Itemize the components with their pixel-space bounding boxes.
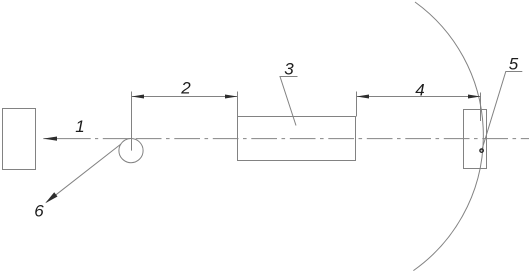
- svg-text:6: 6: [34, 201, 44, 220]
- svg-text:5: 5: [509, 55, 519, 74]
- svg-text:3: 3: [284, 59, 294, 78]
- svg-text:2: 2: [180, 79, 191, 98]
- svg-text:4: 4: [415, 81, 424, 100]
- svg-text:1: 1: [75, 117, 84, 136]
